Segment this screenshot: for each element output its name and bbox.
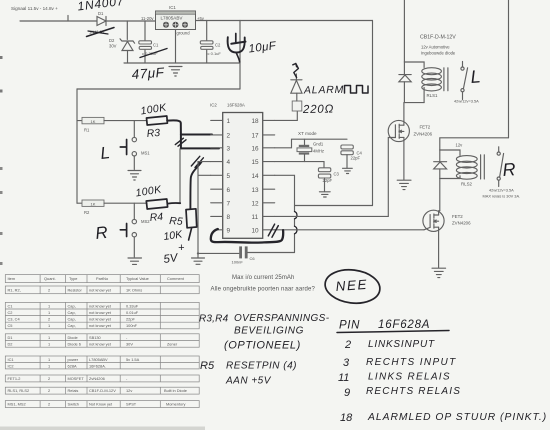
svg-text:RLS1, RLS2: RLS1, RLS2 [8,388,30,393]
svg-text:C1: C1 [8,303,13,308]
svg-text:1K: 1K [91,119,96,124]
handwritten resistor R3 100K [140,101,168,140]
node: junction at ground vertical [197,252,199,254]
parts table header row [5,275,199,283]
ground under MS2 [128,258,142,264]
wire: R2 to R4 [104,202,147,204]
crossed-out D1 part number [87,28,115,37]
ground under FET2 [432,268,446,277]
wire: pin10 to FET2 gate [275,229,424,231]
svg-text:16F628A: 16F628A [378,319,430,331]
hand hop squiggle over pin11 wire [295,212,297,219]
svg-text:LINKS RELAIS: LINKS RELAIS [368,372,451,383]
svg-text:2: 2 [48,376,50,381]
svg-text:Quant.: Quant. [44,276,56,281]
svg-text:3: 3 [343,357,350,369]
handwritten resistor R5 10K [163,209,197,266]
svg-text:MAX relais is 30V 3A.: MAX relais is 30V 3A. [483,194,521,199]
svg-text:18: 18 [340,412,353,424]
voltage regulator IC1 L7805ABV [141,5,205,36]
wire: input signal to D1 anode [20,20,97,22]
svg-text:11: 11 [338,372,349,384]
wire: pin14 to vdd vertical [275,175,295,252]
svg-text:RLS1: RLS1 [427,93,439,98]
relay coil RLS1 [422,68,448,103]
svg-text:RESETPIN (4): RESETPIN (4) [226,361,297,372]
svg-text:Relais: Relais [68,388,79,393]
hand cut mark on pin10 wire [268,224,278,237]
wire: +5v rail to right edge [196,20,373,22]
svg-text:C3, C4: C3, C4 [8,317,21,322]
wire: left edge of input box [76,89,78,203]
svg-text:NEE: NEE [335,277,368,294]
svg-text:R5: R5 [169,215,183,228]
wire: +5v right edge down [372,21,374,206]
svg-text:Momentory: Momentory [166,402,186,407]
svg-text:Cap,: Cap, [68,310,76,315]
svg-text:XT mode: XT mode [298,131,317,136]
zener diode D2 30V [109,38,135,63]
svg-text:CB1F-D-M-12V: CB1F-D-M-12V [420,35,456,41]
svg-text:MS2: MS2 [141,219,150,224]
svg-text:R3: R3 [146,127,161,140]
wire: FET2 source down [438,227,440,268]
svg-text:4: 4 [227,159,231,166]
handwritten resistor R4 100K [135,183,168,224]
wire: 12v rail left (top edge) [403,0,405,62]
relay core lines [444,68,448,91]
svg-text:R4: R4 [149,211,164,224]
svg-text:22pF: 22pF [351,156,361,161]
svg-text:9: 9 [227,227,231,234]
svg-text:Diode 6: Diode 6 [68,342,81,347]
svg-text:SPST: SPST [126,402,137,407]
svg-text:47μF: 47μF [131,65,165,82]
svg-text:not know yet: not know yet [89,323,112,328]
relay core lines [481,155,485,179]
svg-text:30V: 30V [126,342,133,347]
svg-text:ZvN4206: ZvN4206 [89,376,105,381]
svg-text:Not Know yet: Not Know yet [89,402,113,407]
parts table rows ICs [5,356,199,369]
svg-text:+: + [178,242,185,254]
svg-text:16: 16 [252,145,260,152]
svg-text:MS1: MS1 [141,151,150,156]
svg-text:IC2: IC2 [210,103,217,108]
ground symbol below IC [192,253,205,264]
svg-text:ALARMLED OP STUUR (PINKT.): ALARMLED OP STUUR (PINKT.) [367,412,547,423]
wire: to C6 left plate [198,252,239,254]
svg-text:1: 1 [48,310,50,315]
svg-text:11: 11 [252,214,259,221]
ground symbol under IC1 [169,67,182,77]
wire: D1 cathode to IC1 input [106,20,156,22]
svg-text:D1: D1 [98,11,104,16]
svg-text:Typical Value: Typical Value [126,276,149,281]
svg-text:100nF: 100nF [126,323,138,328]
svg-text:RECHTS INPUT: RECHTS INPUT [366,357,457,368]
pin circle 2 [173,22,179,28]
svg-text:c 0.1uF: c 0.1uF [208,51,222,56]
svg-text:L: L [470,66,481,87]
handwritten pin list header [337,319,449,333]
hand wire: R4 to vertical [167,202,180,205]
svg-text:C2: C2 [8,310,13,315]
pin stubs left 1-9 [211,120,223,229]
scan marks left edge [0,56,3,59]
svg-text:D1: D1 [8,335,13,340]
hand arrow: led light marks [293,64,299,78]
svg-text:FET1-2: FET1-2 [8,376,21,381]
svg-text:C1: C1 [153,43,159,48]
svg-text:12v: 12v [456,143,464,148]
hand switch actuator MS2 [120,224,126,237]
svg-text:not know yet: not know yet [89,342,112,347]
svg-text:R1, R2,: R1, R2, [8,288,21,293]
svg-text:MOSFET: MOSFET [68,376,85,381]
svg-text:power: power [68,357,79,362]
svg-text:PartNo: PartNo [96,276,108,281]
svg-text:BEVEILIGING: BEVEILIGING [234,326,304,337]
svg-text:9: 9 [344,387,350,399]
wire: R1 to R3 [104,120,147,122]
svg-text:L7805ABV: L7805ABV [89,357,108,362]
svg-text:2: 2 [48,388,50,393]
svg-text:42w/12v=3.5A: 42w/12v=3.5A [454,99,479,104]
svg-text:Switch: Switch [68,402,79,407]
svg-text:ZVN4206: ZVN4206 [414,132,433,137]
wire: 12v rail right (top edge) [508,0,510,138]
svg-text:D2: D2 [109,38,115,43]
wire: pin15 to crystal bottom and C3 [275,162,324,168]
svg-text:Type: Type [69,276,77,281]
svg-text:R: R [502,159,516,180]
switch MS1 [132,121,150,170]
svg-text:4MHz: 4MHz [313,149,324,154]
ground under FET1 [397,180,411,189]
svg-text:D2: D2 [8,342,13,347]
svg-text:5v 1.5A: 5v 1.5A [126,357,140,362]
svg-text:Cap,: Cap, [68,317,76,322]
wire: branch down to zener D2 [126,21,128,40]
svg-text:1K Ohms: 1K Ohms [126,288,142,293]
wire: relay1 bottom branch [404,102,424,104]
switch contact relay2 [497,147,504,187]
svg-text:0.33uF: 0.33uF [126,303,139,308]
svg-text:7: 7 [227,200,231,207]
svg-text:CB1F-D-M-12V: CB1F-D-M-12V [89,388,116,393]
crystal Gnd1 4MHz [297,139,324,161]
svg-text:5: 5 [227,173,231,180]
svg-text:Cap,: Cap, [68,323,76,328]
ground under C3 [319,192,330,197]
svg-text:1: 1 [48,323,50,328]
pin circle 1 [163,22,169,28]
svg-text:L7805ABV: L7805ABV [161,16,184,21]
svg-text:1: 1 [48,335,50,340]
diode D1 [97,11,106,26]
resistor R2 1K [77,200,104,215]
svg-text:2: 2 [48,317,50,322]
capacitor C4 22pF [341,145,363,168]
svg-text:IC1: IC1 [8,357,14,362]
svg-text:not know yet: not know yet [89,288,112,293]
scan smudge bottom [0,427,205,430]
pin stubs right 10-18 [263,120,275,229]
svg-text:R1: R1 [84,128,90,133]
svg-text:C3: C3 [334,172,340,177]
svg-text:1K: 1K [91,201,96,206]
svg-text:PIN: PIN [339,320,360,332]
svg-text:R3,R4: R3,R4 [199,314,229,325]
parts table row R1 R2 [5,286,199,294]
wire: top rail of input box [77,88,240,90]
wire: led cathode to resistor [296,93,298,101]
wire: IC1 ground pin down [175,30,177,64]
wire: ground rail under power section [124,62,240,64]
hand wire: R3 to pin 2 [167,120,181,134]
svg-text:1: 1 [48,342,50,347]
parts table row RLS1 RLS2 [5,387,199,394]
svg-text:12v Automotive: 12v Automotive [421,45,450,50]
svg-text:22pF: 22pF [126,317,135,322]
svg-text:Max i/o current 25mAh: Max i/o current 25mAh [232,275,294,281]
svg-text:12: 12 [252,200,260,207]
svg-text:not know yet: not know yet [89,303,112,308]
capacitor C3 22pF [318,168,339,192]
svg-text:42w/12v=3.5A: 42w/12v=3.5A [489,188,514,193]
svg-text:(OPTIONEEL): (OPTIONEEL) [224,340,301,352]
svg-text:16F628A: 16F628A [227,103,245,108]
wire: pin4/pin5 to ground vertical [198,162,211,254]
handwritten NEE circled [323,267,382,306]
capacitor C6 100nF [232,246,256,264]
microcontroller IC2 16F628A [210,103,263,239]
svg-text:16F628A.: 16F628A. [89,364,106,369]
wire: FET2 drain up [439,211,440,215]
svg-text:2: 2 [344,339,351,351]
svg-text:11-20v: 11-20v [141,16,154,21]
svg-text:6: 6 [227,187,231,194]
svg-text:C2: C2 [215,43,221,48]
parts table row MS1 MS2 [5,401,199,408]
svg-text:R2: R2 [84,210,90,215]
svg-text:628A: 628A [68,364,77,369]
svg-text:ALARM: ALARM [303,84,344,97]
svg-text:14: 14 [252,173,260,180]
svg-text:Built in Diode: Built in Diode [164,388,187,393]
switch MS2 [132,203,150,257]
svg-text:OVERSPANNINGS-: OVERSPANNINGS- [234,313,330,324]
svg-text:30V: 30V [109,44,117,49]
hand-drawn electrolytic capacitor (10uF) [228,34,246,63]
svg-text:1: 1 [48,357,50,362]
hand cut mark on old pin wire [175,138,186,146]
svg-text:LINKSINPUT: LINKSINPUT [368,339,435,350]
hand square wave [345,86,369,94]
capacitor C2 [200,21,221,64]
hand wire: vertical to pin 3 branch [180,135,182,149]
svg-text:SB130: SB130 [89,335,102,340]
svg-text:0.01uF: 0.01uF [126,310,139,315]
svg-text:AAN +5V: AAN +5V [225,376,272,387]
svg-text:1: 1 [48,303,50,308]
svg-text:IC2: IC2 [8,364,14,369]
svg-text:2: 2 [227,133,231,140]
svg-text:100nF: 100nF [232,260,244,265]
svg-text:Cap,: Cap, [68,303,76,308]
transistor FET1 ZVN4206 [388,120,432,141]
wire: FET2 gate connect [424,227,430,229]
svg-text:not know yet: not know yet [89,317,112,322]
svg-text:15: 15 [252,159,260,166]
wire: pin16 to crystal top rail [275,139,347,148]
LED alarm diode [291,74,302,93]
parts table rows diodes [5,334,199,347]
transistor FET2 ZVN4206 [423,210,471,231]
svg-text:Gnd1: Gnd1 [313,142,324,147]
resistor 220 ohm (alarm led) [292,101,302,111]
wire: vertical from R4 up to pin3 branch [179,149,181,203]
wire: relay2 down to FET2 drain [439,179,441,211]
wire: 12v feed to relay2 [440,138,509,150]
svg-text:17: 17 [252,133,260,140]
svg-text:R5: R5 [200,360,215,372]
svg-text:Resistor: Resistor [68,288,83,293]
svg-text:FET2: FET2 [452,214,463,219]
svg-text:Signaal 11.5v - 14.8v +: Signaal 11.5v - 14.8v + [11,6,58,11]
ground under C4 [343,168,353,173]
wire: C6 right plate to pin14 vertical [248,252,295,254]
svg-text:8: 8 [227,214,231,221]
flyback diode relay1 [399,62,411,103]
wire: relay2 bottom branch [440,178,460,180]
hand strike over C1 value [140,49,167,58]
svg-text:IC1: IC1 [169,5,176,10]
parts table row FET1-2 [5,375,199,382]
wire: relay1 top branch [404,62,424,68]
svg-text:ground: ground [177,31,191,36]
svg-text:Item: Item [8,276,16,281]
svg-text:ZVN4206: ZVN4206 [452,221,471,226]
relay coil RLS2 [456,155,484,187]
capacitor C1 [139,21,159,63]
svg-text:220Ω: 220Ω [302,103,334,116]
svg-text:1: 1 [48,364,50,369]
svg-text:FET2: FET2 [420,125,431,130]
hand switch actuator MS1 [120,140,126,155]
hand wire: to pin 3 [181,147,219,149]
wire: bottom rail of xt box [295,205,373,207]
svg-text:L: L [99,143,110,163]
flyback diode relay2 [434,150,447,179]
parts table rows capacitors [5,302,199,328]
svg-text:RLS2: RLS2 [461,182,473,187]
node: input junction tick [67,16,69,22]
svg-text:Alle ongebruikte poorten naar: Alle ongebruikte poorten naar aarde? [211,287,316,293]
switch contact relay1 [461,62,468,100]
resistor R1 1K [77,117,104,132]
svg-text:R: R [94,223,108,243]
ground under MS1 [128,171,141,181]
svg-text:18: 18 [252,118,260,125]
wire: relay2 top branch [440,150,460,156]
svg-text:2: 2 [48,288,50,293]
pin circle 3 [182,22,188,28]
svg-text:12v: 12v [126,388,132,393]
svg-text:Ingebouwde diode: Ingebouwde diode [421,51,456,56]
hand cut mark on pin4 wire [191,156,203,167]
svg-text:3: 3 [227,145,231,152]
svg-text:2: 2 [48,402,50,407]
svg-text:Zener: Zener [167,342,178,347]
svg-text:not know yet: not know yet [89,310,112,315]
wire: +5v branch down through hand cap to gnd rail and box below [239,21,241,90]
wire: FET1 drain up to relay [403,103,405,126]
wire: pin11 to FET1 gate [275,138,396,217]
hand wire: pin4 wire down to R5 [190,162,201,209]
wire: pin18 to 220 ohm resistor [275,111,298,120]
svg-text:RECHTS RELAIS: RECHTS RELAIS [366,386,461,397]
svg-text:C5: C5 [8,323,13,328]
svg-text:13: 13 [252,187,260,194]
hand wire: pin9 rerouted around IC to pin10 wire [211,229,283,243]
wire: FET1 source down [403,137,405,179]
svg-text:1: 1 [227,118,231,125]
svg-text:10: 10 [252,227,260,234]
svg-text:Diode: Diode [68,335,78,340]
svg-text:MS1, MS2: MS1, MS2 [8,402,26,407]
hand hop squiggle over pin10 wire [295,226,297,234]
svg-text:Comment: Comment [167,276,185,281]
svg-text:C6: C6 [250,256,256,261]
